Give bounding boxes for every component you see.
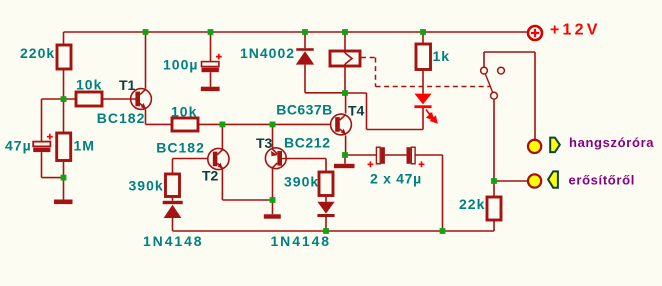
svg-text:22k: 22k — [459, 196, 485, 212]
svg-text:220k: 220k — [20, 45, 55, 61]
svg-text:erősítőről: erősítőről — [569, 173, 635, 188]
svg-text:2 x 47µ: 2 x 47µ — [370, 170, 422, 186]
svg-text:390k: 390k — [129, 178, 164, 194]
svg-text:T2: T2 — [202, 168, 219, 184]
svg-text:1k: 1k — [433, 48, 451, 64]
svg-text:47µ: 47µ — [5, 138, 32, 154]
svg-text:10k: 10k — [76, 77, 102, 93]
svg-text:T3: T3 — [256, 135, 273, 151]
svg-text:1M: 1M — [74, 138, 95, 154]
svg-text:100µ: 100µ — [163, 57, 198, 73]
svg-text:hangszóróra: hangszóróra — [569, 135, 654, 150]
svg-text:1N4148: 1N4148 — [143, 233, 203, 249]
svg-text:BC212: BC212 — [284, 135, 331, 151]
svg-text:T4: T4 — [348, 102, 365, 118]
svg-text:10k: 10k — [171, 103, 197, 119]
svg-text:T1: T1 — [119, 77, 136, 93]
svg-text:BC637B: BC637B — [276, 101, 332, 117]
svg-text:390k: 390k — [284, 174, 319, 190]
svg-text:BC182: BC182 — [156, 140, 205, 156]
svg-text:1N4148: 1N4148 — [271, 233, 331, 249]
svg-text:BC182: BC182 — [97, 110, 146, 126]
svg-text:+12V: +12V — [550, 22, 601, 39]
svg-text:1N4002: 1N4002 — [240, 45, 295, 61]
